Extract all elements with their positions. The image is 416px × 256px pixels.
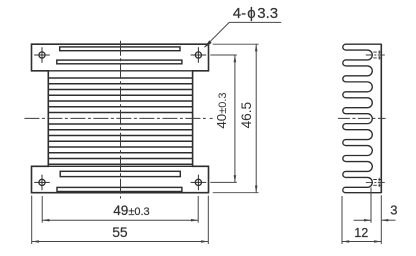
svg-text:3.3: 3.3 bbox=[257, 5, 278, 22]
svg-text:3: 3 bbox=[390, 202, 397, 217]
mounting hole 2 bbox=[191, 47, 207, 63]
leader 4-phi3.3 bbox=[205, 22, 282, 47]
dim 40±0.3 bbox=[210, 54, 237, 56]
step line bottom bbox=[32, 165, 209, 167]
dim 55 bbox=[31, 196, 33, 245]
svg-text:ϕ: ϕ bbox=[247, 5, 255, 22]
slot slotC bbox=[60, 171, 180, 176]
heatsink front view outline bbox=[32, 44, 209, 193]
slot slotD bbox=[57, 187, 182, 191]
horizontal centerline front bbox=[24, 117, 205, 119]
heatsink side view profile bbox=[343, 44, 382, 193]
slot slot1 bbox=[60, 47, 180, 51]
dim 12 bbox=[341, 196, 343, 244]
mounting hole 1 bbox=[34, 47, 50, 63]
svg-text:40±0.3: 40±0.3 bbox=[214, 92, 229, 128]
mounting hole 4 bbox=[191, 175, 207, 191]
step line top bbox=[32, 70, 209, 72]
hole centerline side view bbox=[366, 54, 386, 56]
horizontal centerline side view bbox=[338, 117, 386, 119]
hole hidden lines side view bbox=[373, 51, 381, 53]
svg-text:4-: 4- bbox=[233, 5, 246, 22]
svg-text:46.5: 46.5 bbox=[239, 102, 254, 128]
dim 46.5 bbox=[213, 43, 259, 45]
vertical centerline front bbox=[120, 41, 122, 199]
side view back face bbox=[380, 44, 382, 193]
mounting hole 3 bbox=[34, 175, 50, 191]
fin lines front bbox=[48, 77, 192, 79]
slot slot2 bbox=[57, 60, 182, 64]
svg-text:55: 55 bbox=[112, 224, 128, 240]
dim 3 bbox=[370, 188, 372, 223]
dim 49±0.3 bbox=[41, 196, 43, 223]
svg-text:12: 12 bbox=[354, 226, 368, 240]
svg-text:49±0.3: 49±0.3 bbox=[113, 203, 149, 218]
hole hidden lines side view bbox=[373, 179, 381, 181]
hole centerline side view bbox=[366, 181, 386, 183]
